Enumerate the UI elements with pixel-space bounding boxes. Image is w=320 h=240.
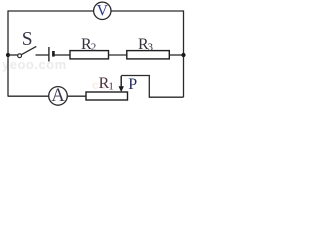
wire right edge [183, 10, 185, 97]
svg-text:2: 2 [91, 42, 97, 54]
svg-text:yeoo.com: yeoo.com [2, 57, 67, 72]
wire ammeter to R1 [67, 95, 86, 97]
resistor R3 [127, 51, 170, 59]
ammeter A [49, 87, 68, 106]
rheostat R1 [86, 92, 128, 100]
switch S [18, 54, 22, 58]
node right junction [181, 53, 185, 57]
wire left edge [7, 10, 9, 96]
node left junction [6, 53, 10, 57]
svg-text:P: P [128, 76, 137, 93]
svg-text:3: 3 [148, 42, 154, 54]
wire top-left to voltmeter [8, 10, 94, 12]
wire middle-left to switch [8, 54, 18, 56]
svg-text:V: V [97, 2, 109, 19]
wire bottom-left [8, 95, 49, 97]
wire voltmeter to top-right [111, 10, 184, 12]
resistor R2 [70, 51, 109, 59]
wire slider to bottom right [121, 76, 183, 98]
wire switch to battery [36, 54, 49, 56]
battery cell [48, 47, 50, 62]
wire battery to R2 [55, 54, 71, 56]
wire R2 to R3 [109, 54, 127, 56]
svg-text:A: A [51, 86, 65, 106]
svg-text:1: 1 [108, 81, 114, 93]
wire R3 to right edge [169, 54, 183, 56]
slider arrow P [120, 76, 122, 88]
voltmeter U-V [94, 2, 111, 19]
svg-text:S: S [22, 29, 33, 50]
